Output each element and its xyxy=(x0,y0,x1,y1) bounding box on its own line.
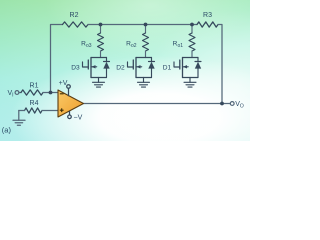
svg-text:R3: R3 xyxy=(203,12,212,19)
op-amp U1 xyxy=(58,90,84,117)
svg-text:+V: +V xyxy=(59,80,68,87)
svg-text:Ro1: Ro1 xyxy=(173,41,184,49)
-V supply terminal xyxy=(68,111,72,119)
wire (drain bar of D1) xyxy=(183,57,199,59)
svg-text:R4: R4 xyxy=(30,100,39,107)
+V supply terminal xyxy=(67,85,71,97)
ground (D2 source) xyxy=(138,78,150,88)
MOSFET D2 xyxy=(128,58,142,78)
svg-text:D3: D3 xyxy=(71,65,80,72)
svg-text:VO: VO xyxy=(235,101,244,110)
svg-text:D2: D2 xyxy=(116,65,125,72)
node (rail / Ro3) xyxy=(99,23,103,27)
resistor R2 xyxy=(63,22,89,27)
resistor Ro2 xyxy=(145,25,147,34)
wire (R3 right leg down to output) xyxy=(218,25,222,104)
resistor R1 xyxy=(21,90,43,95)
svg-text:(a): (a) xyxy=(2,126,12,135)
ground (D3 source) xyxy=(93,78,105,88)
diode (body diode of D2) xyxy=(148,58,154,78)
resistor R3 xyxy=(197,22,218,27)
svg-text:R2: R2 xyxy=(70,12,79,19)
svg-text:Ro3: Ro3 xyxy=(81,41,92,49)
MOSFET D1 xyxy=(174,58,188,78)
output terminal V_O xyxy=(230,102,234,106)
wire (output line) xyxy=(84,103,231,105)
diode (body diode of D3) xyxy=(103,58,109,78)
wire (drain bar of D3) xyxy=(91,57,107,59)
node (rail / Ro1) xyxy=(190,23,194,27)
diode (body diode of D1) xyxy=(195,58,201,78)
wire (source bar of D3) xyxy=(91,77,107,79)
wire xyxy=(19,92,21,94)
wire xyxy=(42,110,59,112)
resistor R4 xyxy=(25,108,43,113)
MOSFET D3 xyxy=(83,58,97,78)
svg-text:D1: D1 xyxy=(163,65,172,72)
resistor Ro3 xyxy=(100,25,102,34)
node (output / R3) xyxy=(220,102,224,106)
ground (D1 source) xyxy=(184,78,196,88)
wire xyxy=(43,92,59,94)
wire (top rail) xyxy=(88,24,192,26)
node (rail / Ro2) xyxy=(144,23,148,27)
wire (feedback riser) xyxy=(51,25,63,93)
resistor Ro1 xyxy=(191,25,193,34)
svg-text:−V: −V xyxy=(74,115,83,122)
wire (source bar of D1) xyxy=(183,77,199,79)
input terminal V_I xyxy=(15,91,19,95)
svg-text:Ro2: Ro2 xyxy=(126,41,137,49)
node (inverting input junction) xyxy=(49,91,53,95)
svg-text:R1: R1 xyxy=(30,82,39,89)
wire xyxy=(192,24,197,26)
wire (source bar of D2) xyxy=(136,77,152,79)
wire (drain bar of D2) xyxy=(136,57,152,59)
ground (non-inverting input) xyxy=(13,111,25,126)
svg-text:VI: VI xyxy=(8,90,14,99)
wire xyxy=(19,110,25,112)
